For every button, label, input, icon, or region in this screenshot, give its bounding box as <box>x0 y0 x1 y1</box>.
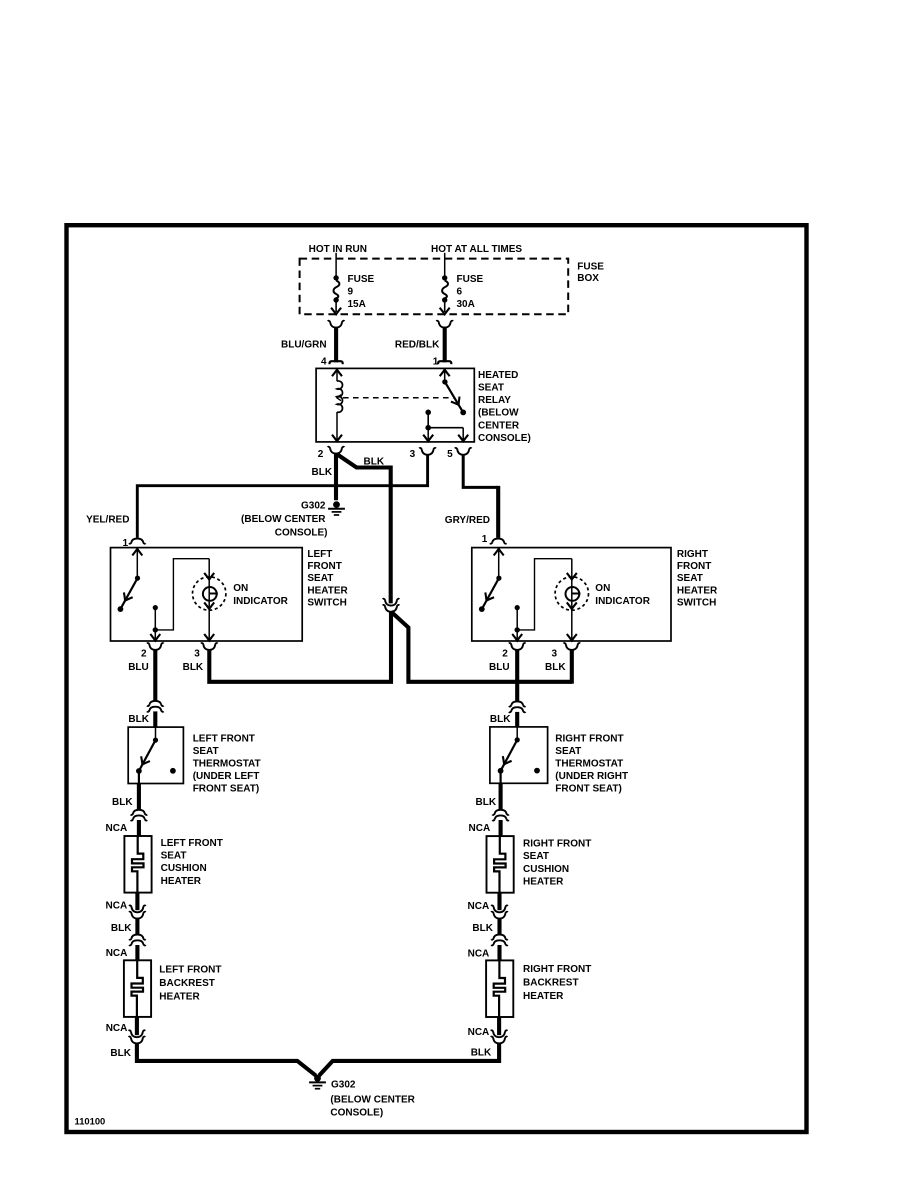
svg-text:BLK: BLK <box>110 1048 131 1059</box>
wire BLK from left switch pin 3 <box>209 612 391 682</box>
inline connector (left BLK/NCA) <box>131 810 148 821</box>
pin 3 of relay <box>410 448 436 460</box>
svg-text:BLK: BLK <box>476 797 497 808</box>
svg-text:HEATER: HEATER <box>677 585 718 596</box>
right switch contact to pin 2 <box>512 605 522 641</box>
svg-text:SEAT: SEAT <box>478 383 504 394</box>
wire to indicator lamp <box>517 559 572 630</box>
svg-text:LEFT FRONT: LEFT FRONT <box>193 734 255 745</box>
thermostat blade <box>498 727 540 783</box>
right switch blade <box>479 549 504 612</box>
wire BLU/GRN <box>334 327 338 362</box>
svg-text:BLK: BLK <box>128 714 149 725</box>
svg-text:HEATER: HEATER <box>161 876 202 887</box>
svg-text:(BELOW CENTER: (BELOW CENTER <box>330 1095 415 1106</box>
left front seat cushion heater <box>124 836 222 893</box>
svg-text:2: 2 <box>502 648 508 659</box>
connector at left switch pin 1 <box>129 539 146 544</box>
wire BLK (left inter-heater) <box>135 919 139 935</box>
svg-text:GRY/RED: GRY/RED <box>445 515 490 526</box>
svg-text:3: 3 <box>552 648 558 659</box>
fuse 9 15A <box>331 274 374 314</box>
svg-text:SEAT: SEAT <box>161 851 187 862</box>
svg-text:9: 9 <box>348 287 354 298</box>
svg-text:CUSHION: CUSHION <box>161 863 207 874</box>
thermostat label <box>193 734 261 795</box>
wire BLK from right switch pin 3 <box>570 650 574 684</box>
svg-text:BACKREST: BACKREST <box>159 978 215 989</box>
wire NCA below right cushion heater <box>497 892 501 910</box>
svg-text:FUSE: FUSE <box>457 274 484 285</box>
inline connector (right BLK/NCA lower) <box>491 935 508 946</box>
svg-text:BLU: BLU <box>489 662 510 673</box>
svg-text:RELAY: RELAY <box>478 395 511 406</box>
inline connector (left BLU/BLK) <box>147 701 164 712</box>
svg-text:110100: 110100 <box>75 1116 106 1127</box>
svg-text:HEATER: HEATER <box>523 877 564 888</box>
svg-text:FRONT SEAT): FRONT SEAT) <box>193 784 259 795</box>
wire NCA to right backrest heater <box>497 945 501 960</box>
connector below fuse 6 <box>436 321 453 328</box>
wire from HOT IN RUN <box>335 253 337 276</box>
svg-text:NCA: NCA <box>468 1027 490 1038</box>
left front seat heater switch (box) <box>111 548 303 641</box>
right front seat cushion heater <box>487 836 592 893</box>
inline connector (left bottom) <box>129 1030 146 1043</box>
svg-text:LEFT: LEFT <box>307 549 332 560</box>
indicator lamp (ON INDICATOR) <box>193 559 289 641</box>
svg-text:BLU/GRN: BLU/GRN <box>281 340 327 351</box>
right front seat thermostat (under right front seat) <box>490 727 548 783</box>
svg-text:4: 4 <box>321 357 327 368</box>
svg-text:(UNDER RIGHT: (UNDER RIGHT <box>555 771 628 782</box>
svg-text:FRONT: FRONT <box>307 561 341 572</box>
svg-text:BLK: BLK <box>472 923 493 934</box>
relay switch contact <box>440 370 466 416</box>
right front seat heater switch (box) <box>472 548 671 641</box>
inline connector (right NCA/BLK upper) <box>491 905 508 918</box>
wire BLK from left backrest heater to ground <box>137 1043 316 1075</box>
wire RED/BLK <box>443 327 447 362</box>
svg-text:THERMOSTAT: THERMOSTAT <box>555 758 623 769</box>
svg-text:G302: G302 <box>331 1080 356 1091</box>
thermostat label <box>555 733 628 794</box>
svg-text:RIGHT: RIGHT <box>677 549 708 560</box>
svg-text:CONSOLE): CONSOLE) <box>275 527 328 538</box>
svg-text:RIGHT FRONT: RIGHT FRONT <box>555 733 623 744</box>
svg-text:SEAT: SEAT <box>307 573 333 584</box>
svg-text:CONSOLE): CONSOLE) <box>478 433 531 444</box>
svg-text:RIGHT FRONT: RIGHT FRONT <box>523 838 591 849</box>
svg-text:3: 3 <box>410 449 416 460</box>
inline connector (left NCA/BLK upper) <box>129 905 146 918</box>
svg-text:HEATER: HEATER <box>307 585 348 596</box>
svg-text:BLK: BLK <box>112 797 133 808</box>
inline connector (left BLK/NCA lower) <box>129 935 146 946</box>
svg-text:FRONT SEAT): FRONT SEAT) <box>555 783 621 794</box>
svg-text:30A: 30A <box>457 299 475 310</box>
label LEFT FRONT SEAT HEATER SWITCH <box>307 549 348 609</box>
svg-text:NCA: NCA <box>106 1023 128 1034</box>
svg-text:BLU: BLU <box>128 662 149 673</box>
wire BLK below left thermostat <box>137 784 141 810</box>
svg-text:BLK: BLK <box>111 923 132 934</box>
inline connector (right bottom) <box>491 1030 508 1043</box>
wire NCA below left cushion heater <box>135 892 139 910</box>
svg-text:INDICATOR: INDICATOR <box>595 596 650 607</box>
svg-text:THERMOSTAT: THERMOSTAT <box>193 759 261 770</box>
svg-text:FRONT: FRONT <box>677 561 711 572</box>
svg-text:1: 1 <box>433 357 439 368</box>
wire BLU from right switch pin 2 <box>515 650 519 701</box>
dashed actuating link <box>343 397 454 399</box>
svg-text:6: 6 <box>457 287 463 298</box>
inline connector on BLK wire (middle) <box>383 599 400 612</box>
svg-text:CUSHION: CUSHION <box>523 864 569 875</box>
wire from HOT AT ALL TIMES <box>444 253 446 276</box>
svg-text:SEAT: SEAT <box>193 746 219 757</box>
svg-text:BLK: BLK <box>471 1048 492 1059</box>
wire NCA below left backrest heater <box>135 1017 139 1036</box>
svg-text:G302: G302 <box>301 500 326 511</box>
wire NCA to left cushion heater <box>137 820 141 836</box>
svg-text:NCA: NCA <box>468 949 490 960</box>
svg-text:SWITCH: SWITCH <box>677 598 716 609</box>
svg-text:SEAT: SEAT <box>523 851 549 862</box>
svg-text:5: 5 <box>447 449 453 460</box>
inline connector (right BLU/BLK) <box>509 701 526 712</box>
pin 3 of left switch <box>194 643 217 659</box>
svg-text:HEATED: HEATED <box>478 370 518 381</box>
svg-text:NCA: NCA <box>106 901 128 912</box>
pin 1 of relay <box>433 357 452 368</box>
svg-text:BOX: BOX <box>577 273 599 284</box>
svg-text:NCA: NCA <box>106 948 128 959</box>
pin 4 of relay <box>321 357 343 368</box>
svg-text:LEFT FRONT: LEFT FRONT <box>159 964 221 975</box>
svg-text:INDICATOR: INDICATOR <box>233 596 288 607</box>
svg-text:HEATER: HEATER <box>523 991 564 1002</box>
label RIGHT FRONT SEAT HEATER SWITCH <box>677 549 718 609</box>
svg-text:BLK: BLK <box>545 662 566 673</box>
svg-text:2: 2 <box>141 648 147 659</box>
fuse box (dashed outline) <box>300 259 569 315</box>
svg-text:CENTER: CENTER <box>478 420 520 431</box>
svg-text:BLK: BLK <box>490 714 511 725</box>
relay K heated seat relay (box) <box>316 368 474 442</box>
middle switch blade to right run <box>391 612 572 682</box>
svg-text:NCA: NCA <box>106 823 128 834</box>
wire NCA to left backrest heater <box>135 945 139 960</box>
left front seat thermostat (under left front seat) <box>128 727 183 783</box>
fuse 6 30A <box>440 274 484 314</box>
thermostat blade <box>136 727 176 783</box>
svg-text:ON: ON <box>595 583 610 594</box>
wire YEL/RED from relay pin 3 to left switch pin 1 <box>137 455 427 538</box>
pin 2 of left switch <box>141 643 164 659</box>
ground G302 (below center console) <box>241 500 345 538</box>
left front backrest heater <box>124 960 222 1017</box>
svg-text:ON: ON <box>233 583 248 594</box>
svg-text:HOT IN RUN: HOT IN RUN <box>309 244 367 255</box>
pin 3 of right switch <box>552 643 581 659</box>
connector at right switch pin 1 <box>490 539 507 544</box>
label HEATED SEAT RELAY (BELOW CENTER CONSOLE) <box>478 370 531 444</box>
svg-text:2: 2 <box>318 449 324 460</box>
wire BLK from pin 2 to ground G302 <box>334 454 338 501</box>
wire BLK from pin 2 (diagonal) down to middle connector <box>337 455 390 604</box>
svg-text:(BELOW: (BELOW <box>478 408 519 419</box>
svg-text:NCA: NCA <box>469 823 491 834</box>
wire BLK below right thermostat <box>499 783 503 809</box>
svg-text:SEAT: SEAT <box>555 746 581 757</box>
wire GRY/RED from relay pin 5 to right switch pin 1 <box>463 455 498 538</box>
svg-text:(BELOW CENTER: (BELOW CENTER <box>241 514 326 525</box>
svg-text:NCA: NCA <box>468 901 490 912</box>
svg-text:RIGHT FRONT: RIGHT FRONT <box>523 964 591 975</box>
svg-text:SWITCH: SWITCH <box>307 598 346 609</box>
wire BLK to left thermostat <box>153 711 157 727</box>
svg-text:FUSE: FUSE <box>577 261 604 272</box>
svg-text:HEATER: HEATER <box>159 991 200 1002</box>
relay output branch to pins 3 and 5 <box>423 410 468 442</box>
svg-text:SEAT: SEAT <box>677 573 703 584</box>
svg-text:FUSE: FUSE <box>348 274 375 285</box>
indicator lamp (ON INDICATOR) <box>555 559 651 641</box>
wire NCA to right cushion heater <box>499 820 503 836</box>
svg-text:CONSOLE): CONSOLE) <box>330 1108 383 1119</box>
pin 2 of relay <box>318 447 345 460</box>
right front backrest heater <box>486 960 591 1017</box>
wire BLK from right backrest heater to ground <box>319 1043 499 1075</box>
svg-text:(UNDER LEFT: (UNDER LEFT <box>193 771 260 782</box>
relay coil <box>332 370 343 442</box>
wire BLK to right thermostat <box>515 712 519 727</box>
wire BLK (right inter-heater) <box>497 919 501 935</box>
left switch blade <box>118 549 143 612</box>
pin 2 of right switch <box>502 643 525 659</box>
wire to indicator lamp <box>155 559 209 630</box>
connector below fuse 9 <box>328 321 345 328</box>
wire NCA below right backrest heater <box>497 1017 501 1036</box>
wire BLU from left switch pin 2 <box>153 650 157 701</box>
pin 5 of relay <box>447 448 471 460</box>
inline connector (right BLK/NCA) <box>492 810 509 821</box>
svg-text:RED/BLK: RED/BLK <box>395 340 440 351</box>
svg-text:LEFT FRONT: LEFT FRONT <box>161 838 223 849</box>
svg-text:BLK: BLK <box>364 456 385 467</box>
ground G302 (below center console, bottom) <box>309 1075 416 1119</box>
svg-text:BACKREST: BACKREST <box>523 977 579 988</box>
svg-text:BLK: BLK <box>312 467 333 478</box>
svg-text:YEL/RED: YEL/RED <box>86 514 129 525</box>
svg-text:1: 1 <box>482 534 488 545</box>
svg-text:BLK: BLK <box>183 662 204 673</box>
left switch contact to pin 2 <box>150 605 160 641</box>
svg-text:15A: 15A <box>348 299 366 310</box>
svg-text:3: 3 <box>194 648 200 659</box>
